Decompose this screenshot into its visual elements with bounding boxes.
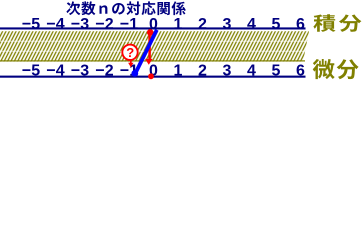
svg-text:3: 3 xyxy=(223,63,232,80)
svg-text:−5: −5 xyxy=(22,63,40,80)
svg-text:5: 5 xyxy=(272,16,281,33)
svg-text:4: 4 xyxy=(247,63,256,80)
svg-text:6: 6 xyxy=(296,16,305,33)
svg-text:−2: −2 xyxy=(95,16,113,33)
top number line (integration axis) xyxy=(0,27,306,29)
red start dot on top 0 xyxy=(147,29,154,36)
svg-text:−2: −2 xyxy=(95,63,113,80)
hatched correspondence band xyxy=(0,31,310,62)
svg-text:?: ? xyxy=(126,45,134,60)
svg-text:−3: −3 xyxy=(71,16,89,33)
svg-text:6: 6 xyxy=(296,63,305,80)
label 微分 (differentiation) xyxy=(313,59,359,79)
svg-text:−3: −3 xyxy=(71,63,89,80)
svg-text:3: 3 xyxy=(223,16,232,33)
small red arrow under question circle xyxy=(128,61,133,68)
svg-text:2: 2 xyxy=(198,63,207,80)
hatch band bottom edge line xyxy=(0,60,305,61)
title 次数ｎの対応関係 xyxy=(66,1,185,15)
svg-text:−4: −4 xyxy=(46,63,64,80)
question circle xyxy=(122,45,137,60)
blue end dot on bottom -1 xyxy=(131,70,138,77)
bottom number line (differentiation axis) xyxy=(0,76,306,78)
svg-text:−4: −4 xyxy=(46,16,64,33)
label 積分 (integration) xyxy=(313,14,361,32)
svg-text:2: 2 xyxy=(198,16,207,33)
svg-text:1: 1 xyxy=(174,63,183,80)
svg-text:−1: −1 xyxy=(120,16,138,33)
svg-text:−5: −5 xyxy=(22,16,40,33)
svg-text:1: 1 xyxy=(174,16,183,33)
svg-text:5: 5 xyxy=(272,63,281,80)
red arrow from 0 (top) down to 0 (bottom) xyxy=(145,33,153,65)
blue mapping line from top 0 to bottom -1 xyxy=(136,30,157,72)
red end dot on bottom 0 xyxy=(148,73,154,79)
svg-text:4: 4 xyxy=(247,16,256,33)
